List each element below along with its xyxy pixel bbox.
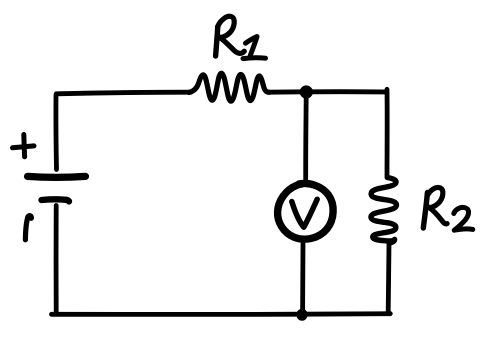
junction bottom <box>296 309 307 321</box>
label R1 <box>216 16 266 58</box>
wire middle branch lower (voltmeter to bottom junction) <box>300 244 305 313</box>
label R2 <box>423 187 473 230</box>
wire left side lower (battery to bottom) <box>54 206 59 313</box>
wire middle branch upper (junction to voltmeter) <box>303 94 308 180</box>
resistor R2 <box>371 178 396 244</box>
wire top-left (battery top to R1) <box>56 92 191 169</box>
wire top-right + right side down to R2 <box>306 89 387 177</box>
battery B1 plate short <box>42 199 70 201</box>
battery minus tick <box>25 216 31 240</box>
voltmeter V (meter circle) <box>278 183 334 239</box>
resistor R1 <box>189 73 270 101</box>
wire top-middle (R1 to junction) <box>268 89 306 94</box>
wire right side below R2 <box>386 243 392 313</box>
battery B1 plate long <box>28 173 86 181</box>
junction top <box>300 85 313 98</box>
voltmeter letter V <box>292 199 317 227</box>
wire bottom <box>52 311 391 317</box>
battery plus label <box>13 135 35 157</box>
